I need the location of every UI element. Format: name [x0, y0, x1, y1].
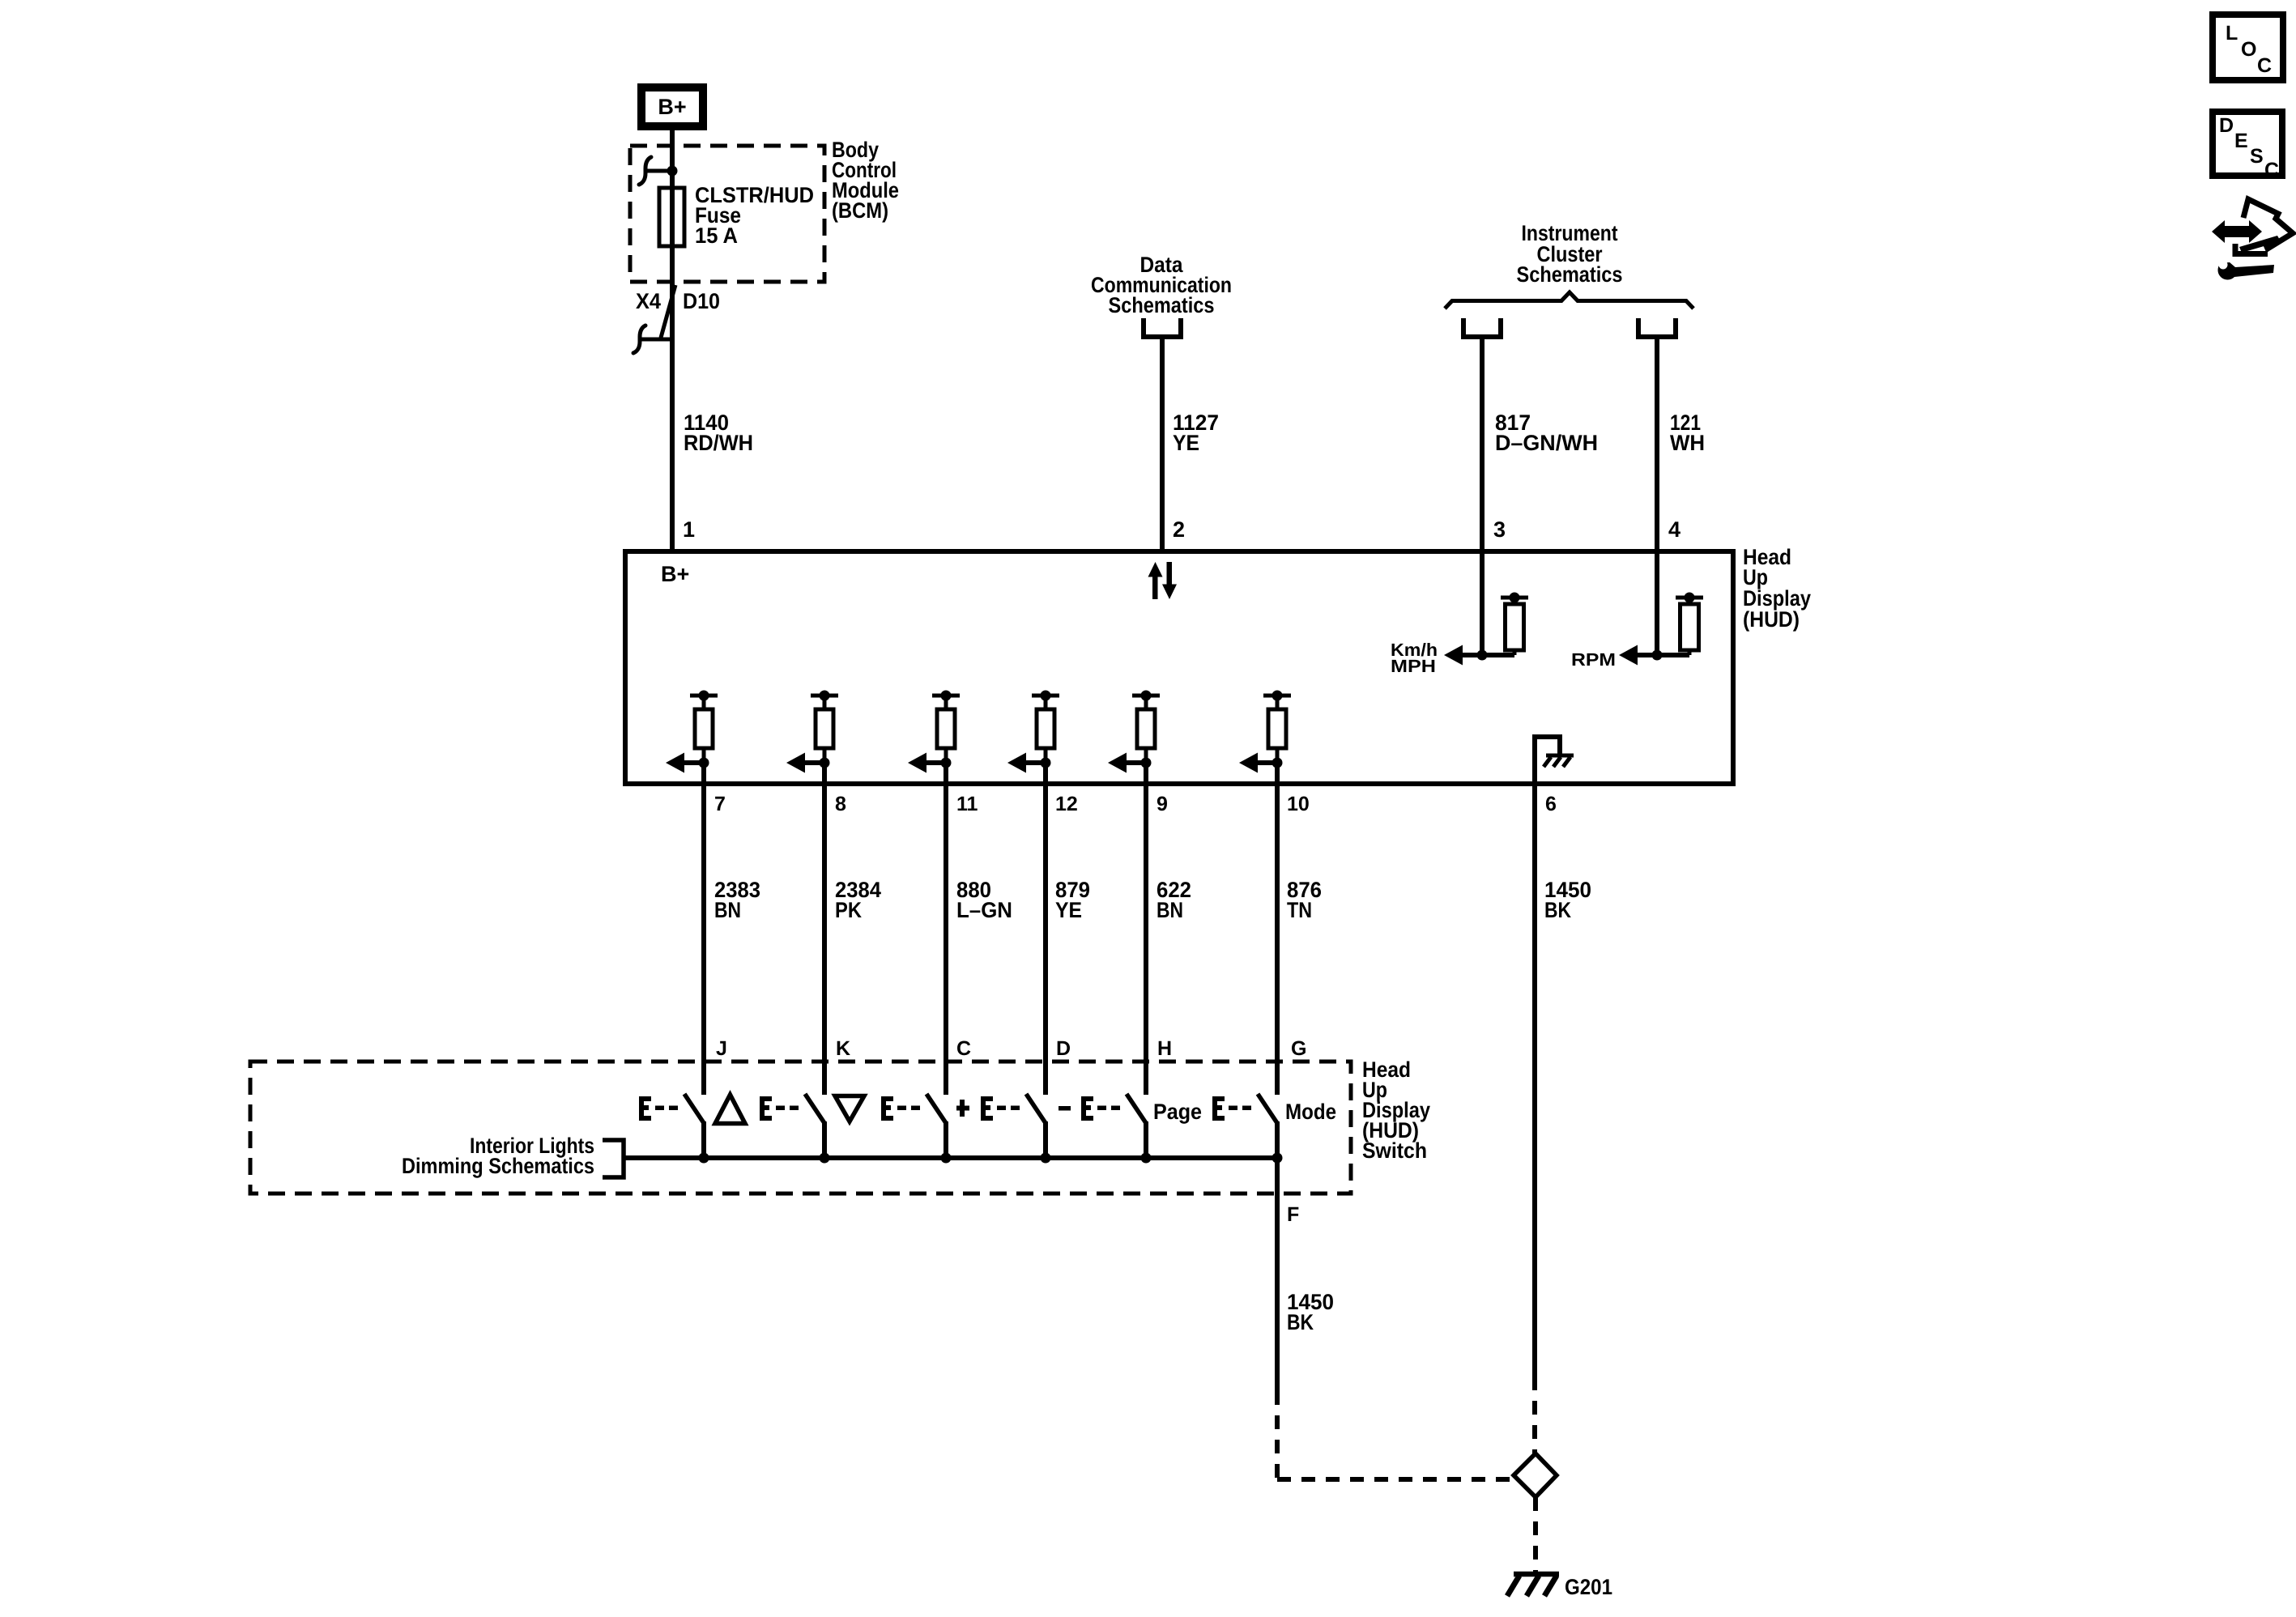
connector hook inside BCM: [639, 157, 670, 185]
svg-text:B+: B+: [661, 562, 689, 586]
svg-text:8: 8: [835, 793, 846, 815]
switch C contact: [881, 1096, 920, 1121]
svg-text:D: D: [1056, 1037, 1071, 1060]
bidirectional data arrows symbol: [1148, 562, 1178, 599]
node switch K common junction: [820, 1153, 830, 1164]
wire label 1140 RD/WH: [684, 411, 753, 455]
wire F (1450 BK) solid: [1275, 1158, 1280, 1391]
svg-text:C: C: [2257, 54, 2272, 77]
svg-text:X4: X4: [636, 289, 661, 313]
wire pin6 ground dashed part: [1532, 1377, 1537, 1453]
label Interior Lights Dimming Schematics: [402, 1134, 594, 1178]
svg-text:L: L: [2226, 22, 2238, 45]
resistor (RPM output): [1657, 593, 1703, 656]
svg-text:7: 7: [714, 793, 726, 815]
wire arrow to Km/h MPH: [1444, 645, 1482, 666]
svg-text:C: C: [956, 1037, 971, 1060]
wire F dashed vertical: [1275, 1391, 1280, 1479]
symbol plus (switch C): [956, 1100, 969, 1117]
switch D blade: [1026, 1094, 1046, 1123]
svg-text:D: D: [2219, 114, 2234, 137]
wire arrow (input 8): [786, 753, 824, 773]
wire switch C to common: [944, 1121, 948, 1158]
splice diamond S201: [1514, 1453, 1557, 1497]
switch K contact: [760, 1096, 799, 1121]
switch D contact: [981, 1096, 1020, 1121]
label Data Communication Schematics: [1091, 253, 1232, 317]
wire pin8 to switch K (2384 PK): [822, 762, 827, 1095]
svg-text:1: 1: [683, 517, 695, 542]
svg-text:11: 11: [956, 793, 978, 815]
wire pin6 ground (1450 BK) solid part: [1532, 784, 1537, 1377]
svg-text:BN: BN: [714, 898, 741, 922]
wire switch K to common: [822, 1121, 827, 1158]
node junction 11: [941, 758, 952, 768]
wire pin4 (121 WH): [1655, 337, 1659, 655]
node switch D common junction: [1041, 1153, 1051, 1164]
resistor (switch input 9): [1132, 691, 1160, 764]
svg-text:TN: TN: [1287, 898, 1312, 922]
wire label 2384 PK: [835, 878, 881, 922]
svg-text:3: 3: [1493, 517, 1506, 542]
wire pin3 (817 D-GN/WH): [1480, 337, 1485, 655]
svg-text:S: S: [2250, 145, 2264, 168]
in-line connector X4 D10: [633, 285, 675, 353]
svg-text:15 A: 15 A: [695, 223, 738, 248]
symbol minus (switch D): [1059, 1106, 1071, 1111]
wire B+ feed (vertical, x=830): [670, 126, 675, 551]
wire pin12 to switch D (879 YE): [1043, 762, 1048, 1095]
wire arrow (input 9): [1108, 753, 1146, 773]
service/repair icon (double arrow, arrow outline, wrench): [2212, 199, 2293, 280]
resistor (Km/h MPH output): [1482, 593, 1528, 656]
svg-text:C: C: [2264, 159, 2279, 181]
wire label 121 WH: [1670, 411, 1705, 455]
node junction 8: [820, 758, 830, 768]
wire label 622 BN: [1157, 878, 1191, 922]
wire switch J to common: [701, 1121, 706, 1158]
switch J blade: [684, 1094, 704, 1123]
svg-text:YE: YE: [1055, 898, 1082, 922]
svg-text:RPM: RPM: [1571, 649, 1616, 670]
wire pin2 (1127 YE): [1160, 337, 1165, 551]
svg-text:WH: WH: [1670, 431, 1705, 455]
svg-text:Page: Page: [1153, 1100, 1202, 1124]
off-page connector (cluster, right): [1638, 318, 1676, 337]
Head Up Display (HUD) box: [625, 551, 1733, 784]
switch K blade: [805, 1094, 824, 1123]
node switch G common junction: [1272, 1153, 1283, 1164]
resistor (switch input 10): [1263, 691, 1291, 764]
bracket (interior lights schematic link): [603, 1140, 624, 1177]
wire label 1450 BK (right): [1544, 878, 1591, 922]
svg-text:(BCM): (BCM): [832, 198, 888, 223]
wire switch H to common: [1144, 1121, 1148, 1158]
wire switch D to common: [1043, 1121, 1048, 1158]
wire pin9 to switch H (622 BN): [1144, 762, 1148, 1095]
switch J contact: [639, 1096, 678, 1121]
svg-text:G201: G201: [1565, 1575, 1612, 1599]
wire switch common line: [625, 1155, 1277, 1160]
svg-text:10: 10: [1287, 793, 1310, 815]
wire pin6 internal ground branch: [1535, 737, 1560, 784]
label Km/h MPH: [1391, 640, 1438, 676]
brace over instrument cluster connectors: [1445, 292, 1693, 309]
symbol down-triangle (switch K): [835, 1096, 864, 1122]
switch C blade: [926, 1094, 946, 1123]
svg-text:Mode: Mode: [1285, 1100, 1336, 1124]
svg-text:B+: B+: [658, 95, 686, 119]
switch G contact: [1212, 1096, 1251, 1121]
svg-text:(HUD): (HUD): [1743, 607, 1800, 632]
resistor (switch input 12): [1032, 691, 1059, 764]
switch H blade: [1127, 1094, 1146, 1123]
svg-text:PK: PK: [835, 898, 862, 922]
svg-text:9: 9: [1157, 793, 1168, 815]
ground (HUD internal): [1544, 755, 1574, 767]
svg-text:L–GN: L–GN: [956, 898, 1012, 922]
wire pin7 to switch J (2383 BN): [701, 762, 706, 1095]
switch H contact: [1081, 1096, 1120, 1121]
svg-text:Switch: Switch: [1362, 1138, 1427, 1163]
wire label 817 D-GN/WH: [1495, 411, 1598, 455]
node junction pin wire / Km/h MPH: [1477, 650, 1488, 661]
wire arrow to RPM: [1619, 645, 1657, 666]
svg-text:MPH: MPH: [1391, 656, 1436, 676]
LOC reference box: [2213, 15, 2283, 80]
label Head Up Display (HUD): [1743, 545, 1811, 632]
fuse CLSTR/HUD 15A: [659, 188, 684, 246]
label Body Control Module (BCM): [832, 138, 899, 223]
svg-text:G: G: [1291, 1037, 1306, 1060]
svg-text:D–GN/WH: D–GN/WH: [1495, 431, 1598, 455]
svg-text:BK: BK: [1287, 1310, 1314, 1334]
svg-text:6: 6: [1545, 793, 1557, 815]
svg-text:D10: D10: [683, 289, 720, 313]
node junction at BCM feed: [667, 166, 678, 177]
off-page connector (cluster, left): [1463, 318, 1501, 337]
wire label 879 YE: [1055, 878, 1090, 922]
node switch C common junction: [941, 1153, 952, 1164]
symbol up-triangle (switch J): [715, 1095, 745, 1124]
wire arrow (input 7): [666, 753, 704, 773]
node junction 12: [1041, 758, 1051, 768]
label Instrument Cluster Schematics: [1517, 221, 1623, 287]
wire pin11 to switch C (880 L-GN): [944, 762, 948, 1095]
wire arrow (input 12): [1007, 753, 1046, 773]
B+ power feed box: [641, 87, 703, 126]
node switch J common junction: [699, 1153, 709, 1164]
wire arrow (input 11): [908, 753, 946, 773]
svg-text:4: 4: [1668, 517, 1680, 542]
wire pin10 to switch G (876 TN): [1275, 762, 1280, 1095]
svg-text:BK: BK: [1544, 898, 1571, 922]
node switch H common junction: [1141, 1153, 1152, 1164]
node junction 9: [1141, 758, 1152, 768]
resistor (switch input 7): [690, 691, 718, 764]
resistor (switch input 11): [932, 691, 960, 764]
svg-text:YE: YE: [1173, 431, 1199, 455]
svg-text:E: E: [2234, 130, 2248, 152]
resistor (switch input 8): [811, 691, 838, 764]
switch G blade: [1258, 1094, 1277, 1123]
wire label 1127 YE: [1173, 411, 1219, 455]
svg-text:BN: BN: [1157, 898, 1183, 922]
svg-text:Dimming Schematics: Dimming Schematics: [402, 1154, 594, 1178]
node junction 7: [699, 758, 709, 768]
off-page connector (data communication): [1144, 318, 1181, 337]
wire label 880 L-GN: [956, 878, 1012, 922]
svg-text:2: 2: [1173, 517, 1185, 542]
svg-text:F: F: [1287, 1203, 1299, 1226]
DESC reference box: [2213, 112, 2282, 181]
svg-text:H: H: [1157, 1037, 1172, 1060]
svg-text:K: K: [836, 1037, 850, 1060]
svg-text:J: J: [716, 1037, 727, 1060]
svg-text:Schematics: Schematics: [1109, 293, 1215, 317]
ground G201: [1507, 1574, 1559, 1596]
svg-text:Schematics: Schematics: [1517, 262, 1623, 287]
label CLSTR/HUD Fuse 15 A: [695, 183, 814, 248]
wire label 1450 BK (left): [1287, 1290, 1334, 1334]
Head Up Display (HUD) Switch dashed outline: [250, 1062, 1351, 1194]
wire label 876 TN: [1287, 878, 1322, 922]
label Head Up Display (HUD) Switch: [1362, 1057, 1430, 1163]
wire switch G to common: [1275, 1121, 1280, 1158]
wire dashed below splice: [1533, 1497, 1538, 1572]
wire dashed horizontal to splice: [1277, 1477, 1511, 1482]
Body Control Module (BCM) dashed outline: [630, 146, 824, 282]
node junction 10: [1272, 758, 1283, 768]
wire arrow (input 10): [1239, 753, 1277, 773]
svg-text:RD/WH: RD/WH: [684, 431, 753, 455]
svg-text:O: O: [2241, 38, 2256, 61]
wire label 2383 BN: [714, 878, 760, 922]
node junction pin wire / RPM: [1652, 650, 1663, 661]
svg-text:12: 12: [1055, 793, 1078, 815]
